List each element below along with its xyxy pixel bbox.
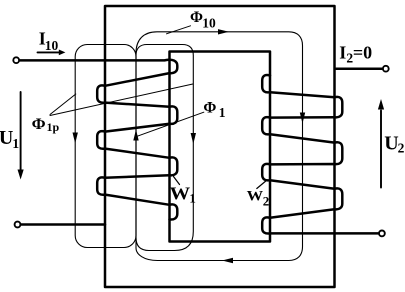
arrowhead flux down, loop B [191,133,196,144]
leakage flux loop B (phi1p right) [136,45,193,251]
arrowhead flux down, phi10 right limb [300,113,305,124]
pointer line phi1p to loop A [50,94,76,115]
pointer line phi1 to left-limb flux line [137,112,204,136]
svg-text:2: 2 [263,193,270,208]
svg-text:I: I [339,43,346,63]
svg-text:W: W [247,189,264,205]
svg-text:U: U [0,127,13,149]
pointer line W2 [257,181,266,189]
arrowhead flux down, loop A [73,133,78,144]
arrowhead I10 [59,50,66,56]
terminal top-left [13,57,19,63]
pointer line phi1p to loop B [50,84,193,116]
core outer boundary [105,6,335,287]
arrowhead flux up, left limb [133,130,138,141]
terminal top-right [383,66,389,72]
svg-text:10: 10 [202,15,216,30]
arrowhead phi10 bottom, leftward [222,258,233,263]
svg-text:=0: =0 [353,43,372,63]
winding W2 with wire to bottom-right terminal [262,75,378,233]
wire bottom-left terminal [21,223,105,226]
winding W1 with wire from top-left terminal [19,60,177,220]
pointer line W1 [174,177,180,185]
arrowhead U1 down [18,170,24,180]
svg-text:U: U [384,133,398,155]
svg-text:1: 1 [189,191,196,206]
svg-text:2: 2 [398,141,405,156]
svg-text:Φ: Φ [203,99,216,116]
main flux loop phi10 [136,32,303,261]
svg-text:1p: 1p [47,120,60,134]
arrow line I10 [38,51,60,53]
terminal bottom-left [15,222,21,228]
svg-text:Φ: Φ [190,9,203,26]
core window [170,52,271,242]
svg-text:Φ: Φ [32,116,46,133]
svg-text:1: 1 [219,105,226,120]
wire top-right terminal [336,67,382,70]
arrowhead phi10 top, rightward [218,29,229,34]
svg-text:1: 1 [12,136,19,151]
pointer line phi10 to flux loop [167,26,191,34]
arrowhead U2 up [378,99,384,110]
svg-text:10: 10 [45,38,59,53]
arrow line U1 [20,92,22,170]
arrow line U2 [380,111,382,188]
svg-text:W: W [170,184,191,204]
leakage flux loop A (phi1p left) [75,45,136,248]
terminal bottom-right [379,231,385,237]
